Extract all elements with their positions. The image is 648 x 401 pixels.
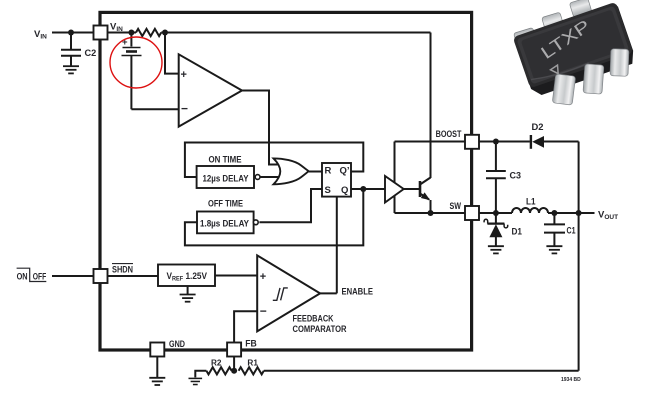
svg-text:OFF: OFF [33, 271, 47, 281]
svg-text:SHDN: SHDN [112, 264, 133, 274]
svg-text:12µs DELAY: 12µs DELAY [203, 173, 250, 184]
svg-text:+: + [260, 271, 266, 283]
svg-text:VOUT: VOUT [598, 210, 618, 222]
svg-text:GND: GND [169, 339, 185, 349]
svg-text:1.8µs DELAY: 1.8µs DELAY [200, 218, 250, 229]
svg-text:ON: ON [17, 271, 28, 281]
svg-text:BOOST: BOOST [436, 129, 462, 139]
svg-text:D1: D1 [512, 227, 523, 237]
svg-text:ON TIME: ON TIME [209, 154, 242, 164]
svg-text:D2: D2 [532, 122, 544, 132]
svg-text:ENABLE: ENABLE [342, 286, 374, 296]
svg-text:FB: FB [245, 339, 257, 349]
svg-text:1934 BD: 1934 BD [561, 377, 581, 383]
svg-text:L1: L1 [526, 197, 536, 207]
svg-text:C1: C1 [567, 226, 576, 236]
svg-text:FEEDBACK: FEEDBACK [293, 314, 334, 324]
svg-text:C3: C3 [510, 171, 522, 181]
svg-text:R: R [325, 166, 332, 177]
svg-text:Q: Q [341, 185, 348, 196]
svg-text:R2: R2 [211, 358, 222, 368]
svg-text:+: + [181, 69, 187, 81]
svg-text:R1: R1 [247, 358, 258, 368]
svg-text:VIN: VIN [110, 22, 123, 34]
svg-text:OFF TIME: OFF TIME [208, 198, 243, 208]
svg-text:Q’: Q’ [340, 166, 350, 177]
svg-text:COMPARATOR: COMPARATOR [293, 324, 347, 334]
svg-text:SW: SW [450, 201, 462, 211]
svg-text:−: − [181, 102, 188, 116]
svg-text:C2: C2 [85, 48, 97, 58]
svg-text:VIN: VIN [34, 29, 47, 41]
svg-text:−: − [260, 304, 267, 318]
svg-text:S: S [325, 185, 331, 196]
